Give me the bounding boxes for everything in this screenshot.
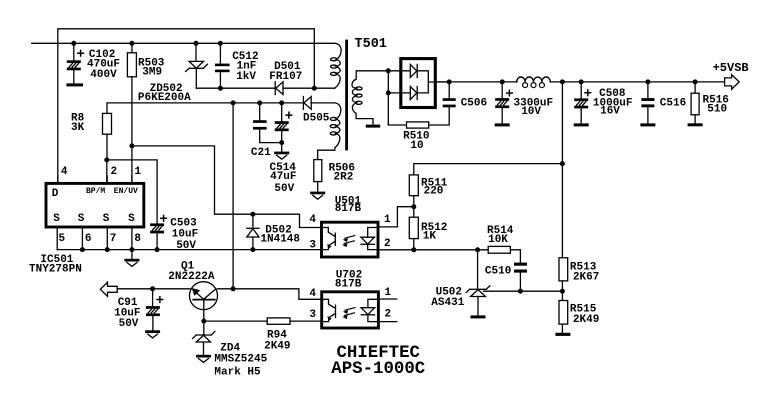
wire +5VSB rail [435, 81, 516, 83]
svg-text:8: 8 [134, 233, 141, 245]
ground (C514) [274, 152, 289, 160]
svg-text:1kV: 1kV [236, 71, 256, 83]
svg-text:3K: 3K [71, 122, 85, 134]
svg-text:50V: 50V [274, 183, 294, 195]
svg-text:7: 7 [110, 233, 117, 245]
capacitor C508 [574, 79, 591, 126]
svg-text:2R2: 2R2 [334, 172, 354, 184]
wire source bus (pins 5-8 to U501 pin3) [57, 247, 321, 252]
svg-text:2: 2 [111, 166, 118, 178]
resistor R515 [555, 301, 570, 336]
svg-text:50V: 50V [119, 318, 139, 330]
svg-text:C503: C503 [170, 217, 197, 229]
optocoupler U501 [322, 222, 379, 257]
label R94 2K49 [264, 330, 290, 353]
wire +310V bus [32, 42, 335, 44]
resistor R503 [127, 41, 136, 182]
label U502 AS431 [431, 286, 464, 309]
label C512 1nF 1kV [232, 51, 258, 83]
svg-text:817B: 817B [335, 278, 362, 290]
label R8 3K [71, 113, 85, 134]
wire bias vertical [231, 100, 236, 288]
terminal bar (C102 return) [66, 83, 83, 86]
transformer T501 secondary winding [352, 71, 388, 125]
resistor R514 [488, 246, 520, 262]
svg-text:MMSZ5245: MMSZ5245 [214, 354, 267, 366]
label 3300uF 10V [514, 98, 554, 118]
label D502 1N4148 [260, 225, 300, 246]
svg-text:16V: 16V [600, 106, 620, 118]
svg-text:3M9: 3M9 [142, 66, 162, 78]
transformer T501 primary winding [335, 43, 341, 88]
transformer T501 core [345, 40, 348, 151]
resistor R511 [409, 175, 418, 217]
terminal bar (secondary return) [366, 125, 380, 128]
svg-text:4: 4 [309, 214, 316, 226]
resistor R513 [559, 258, 568, 301]
svg-text:2K49: 2K49 [573, 314, 599, 326]
svg-text:S: S [53, 213, 60, 225]
label U501 817B 4 [309, 195, 391, 251]
capacitor C503 [150, 216, 166, 250]
svg-text:400V: 400V [90, 69, 117, 81]
svg-text:S: S [103, 213, 110, 225]
ground (C91) [145, 330, 160, 338]
svg-text:1N4148: 1N4148 [260, 233, 300, 245]
label R514 10K [487, 225, 514, 246]
svg-text:510: 510 [707, 103, 727, 115]
resistor R510 [388, 107, 449, 128]
node drain junction [312, 86, 317, 91]
capacitor C510 [514, 263, 527, 294]
svg-text:+5VSB: +5VSB [713, 61, 749, 75]
resistor R506 [314, 160, 322, 192]
svg-text:EN/UV: EN/UV [114, 187, 138, 196]
svg-text:1K: 1K [423, 231, 437, 243]
label C508 1000uF 16V [593, 88, 633, 118]
label C102 470uF 400V [87, 49, 120, 81]
ground (ZD4) [196, 355, 211, 363]
svg-text:FR107: FR107 [269, 71, 302, 83]
svg-text:10uF: 10uF [172, 229, 198, 241]
IC501 TNY278PN [46, 176, 144, 250]
label D BP/M EN/UV [29, 166, 142, 276]
inductor L [517, 77, 551, 88]
svg-text:2: 2 [384, 238, 391, 250]
svg-text:1: 1 [384, 214, 391, 226]
svg-text:3: 3 [309, 309, 316, 321]
svg-text:C516: C516 [660, 98, 686, 110]
svg-text:C21: C21 [251, 147, 271, 159]
label R503 3M9 [138, 58, 165, 79]
svg-text:50V: 50V [176, 240, 196, 252]
wire drain loop (pin4 to top line to D501 node) [58, 29, 315, 182]
svg-text:47uF: 47uF [270, 171, 296, 183]
svg-text:10: 10 [410, 140, 423, 152]
resistor R512 [409, 217, 418, 252]
svg-text:2N2222A: 2N2222A [168, 271, 215, 283]
svg-text:T501: T501 [355, 37, 387, 52]
output arrow +5VSB [725, 75, 740, 90]
diode D502 [247, 212, 259, 252]
wire feedback sense [414, 79, 565, 257]
svg-text:S: S [128, 213, 135, 225]
svg-text:817B: 817B [335, 203, 362, 215]
resistor R516 [688, 79, 703, 126]
diode D505 [303, 97, 311, 110]
wire Q1 emitter line [117, 288, 190, 290]
wire EN/UV node (R503/pin1 to opto collector) [129, 143, 134, 148]
svg-text:3: 3 [309, 239, 316, 251]
capacitor 3300uF [495, 79, 513, 126]
label R512 1K [421, 222, 447, 243]
svg-text:10K: 10K [488, 234, 508, 246]
svg-text:C506: C506 [461, 98, 487, 110]
ground (pin 8) [124, 250, 139, 267]
resistor R8 [103, 113, 112, 134]
label R506 2R2 [329, 163, 355, 184]
capacitor C514 [275, 100, 292, 151]
shunt regulator U502 AS431 [466, 250, 490, 319]
capacitor C102 [67, 41, 84, 84]
wire ref line [484, 290, 563, 292]
resistor R94 [267, 318, 321, 324]
svg-text:P6KE200A: P6KE200A [138, 92, 191, 104]
svg-text:1: 1 [135, 166, 142, 178]
node bias/C21 junction [257, 100, 262, 105]
label C91 10uF 50V [114, 297, 140, 330]
label Q1 2N2222A [168, 261, 215, 283]
wire Q1 collector / bias feed to U702 pin4 [217, 286, 321, 299]
svg-text:S: S [78, 213, 85, 225]
svg-text:2K67: 2K67 [573, 272, 599, 284]
capacitor C91 [146, 286, 163, 330]
svg-text:6: 6 [85, 233, 92, 245]
transistor Q1 [190, 282, 218, 321]
wire clamp bottom [196, 87, 275, 89]
label ZD4 MMSZ5245 Mark H5 [214, 343, 267, 379]
wire bias line (R8 top to D505 anode) [107, 103, 303, 114]
label R511 220 [421, 178, 448, 198]
capacitor C506 [443, 79, 456, 107]
svg-text:AS431: AS431 [431, 297, 464, 309]
text CHIEFTEC APS-1000C [331, 344, 425, 379]
label C503 10uF 50V [170, 217, 198, 252]
optocoupler U702 [322, 292, 397, 328]
label R515 2K49 [570, 304, 599, 327]
svg-text:220: 220 [424, 186, 444, 198]
svg-text:BP/M: BP/M [86, 187, 105, 196]
capacitor C512 [215, 41, 230, 91]
svg-text:Mark H5: Mark H5 [214, 366, 261, 378]
wire Q1 base line [201, 319, 267, 324]
label C514 47uF 50V [270, 162, 297, 195]
svg-text:2K49: 2K49 [264, 340, 290, 352]
label R513 2K67 [570, 261, 599, 283]
svg-text:4: 4 [309, 288, 316, 300]
label R510 10 [403, 130, 429, 152]
zener ZD502 [186, 41, 208, 88]
zener ZD4 [193, 321, 215, 355]
svg-text:2: 2 [385, 308, 392, 320]
label D501 FR107 [269, 61, 302, 83]
svg-text:4: 4 [61, 166, 68, 178]
ground (R506) [310, 192, 325, 200]
wire opto U501 pin2 [379, 249, 414, 251]
svg-text:10V: 10V [521, 106, 541, 118]
svg-text:C510: C510 [485, 265, 511, 277]
capacitor C516 [640, 79, 655, 126]
label R516 510 [703, 94, 729, 115]
svg-text:D: D [52, 188, 59, 200]
wire divider mid [414, 247, 488, 252]
wire BP/M node (pin2 / R8 / C503 top) [104, 157, 109, 162]
svg-text:D505: D505 [303, 113, 330, 125]
svg-text:5: 5 [59, 233, 66, 245]
diode D501 [275, 82, 335, 95]
wire opto U501 pin1 jog [379, 207, 414, 227]
svg-text:APS-1000C: APS-1000C [331, 360, 425, 379]
label U702 817B 4 [309, 270, 391, 322]
label ZD502 P6KE200A [138, 83, 191, 104]
signal arrow (to PS-ON) [100, 282, 117, 296]
rectifier dual diode package [386, 59, 449, 124]
svg-text:TNY278PN: TNY278PN [29, 264, 82, 276]
capacitor C21 [253, 103, 282, 143]
svg-text:1: 1 [385, 287, 392, 299]
transformer T501 bias winding [311, 103, 341, 160]
